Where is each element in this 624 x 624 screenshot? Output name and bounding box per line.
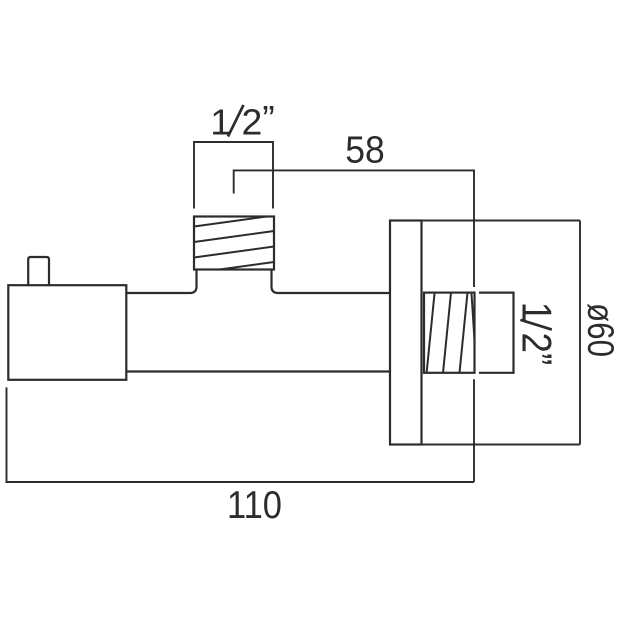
dimension o60 line [579,221,581,445]
pipe top line right segment with port fillet [272,270,391,294]
pipe bottom line [126,370,390,372]
pipe top line left segment with port fillet [126,270,197,294]
svg-text:110: 110 [227,484,282,527]
wall flange [390,221,422,445]
outlet thread hatch [424,293,475,373]
outlet end cap [479,293,514,373]
top port thread hatch [194,216,274,274]
svg-text:1 2”: 1 2” [514,302,561,366]
svg-text:1 2”: 1 2” [210,98,275,143]
svg-text:ø60: ø60 [580,303,621,357]
dimension o60 extension top [422,220,580,222]
svg-text:58: 58 [345,130,385,172]
dimension 58 leader and right extension [234,170,474,482]
text 1/2 top [210,98,275,143]
valve body [8,285,126,380]
dimension 110 [7,387,475,482]
text 1/2 outlet (rotated) [514,302,561,366]
top port 1/2 dimension bracket [194,142,273,209]
handle stub [28,257,49,285]
dimension o60 extension bottom [422,444,580,446]
